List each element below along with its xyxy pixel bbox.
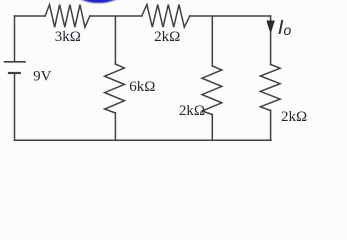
- resistor R 3k (horizontal zigzag): [45, 5, 90, 28]
- wire: 6k branch top lead: [114, 17, 116, 65]
- wire: left vertical to battery: [14, 16, 16, 61]
- svg-text:2kΩ: 2kΩ: [154, 29, 180, 45]
- svg-text:6kΩ: 6kΩ: [129, 79, 155, 95]
- resistor R 2k middle (vertical zigzag): [202, 66, 222, 115]
- battery V1 long plate: [5, 61, 26, 63]
- wire: top-left horizontal lead: [15, 15, 46, 17]
- wire: right branch bottom lead: [270, 111, 272, 141]
- wire: mid 2k branch top lead: [211, 16, 213, 66]
- wire: top middle segment: [90, 15, 142, 17]
- arrow for Io (filled triangle pointing down): [266, 21, 274, 35]
- wire: left vertical below battery: [14, 74, 16, 141]
- resistor R 2k top (horizontal zigzag): [142, 5, 190, 28]
- svg-text:9V: 9V: [33, 68, 52, 84]
- wire: bottom horizontal: [15, 139, 272, 141]
- wire: 6k branch bottom lead: [114, 113, 116, 140]
- svg-text:2kΩ: 2kΩ: [281, 109, 307, 125]
- svg-text:2kΩ: 2kΩ: [179, 103, 205, 119]
- battery V1 short plate: [9, 72, 20, 74]
- wire: top right segment to corner: [190, 15, 271, 17]
- resistor R 2k right (vertical zigzag): [260, 65, 280, 111]
- svg-text:3kΩ: 3kΩ: [55, 29, 81, 45]
- wire: right branch below arrow: [270, 33, 272, 65]
- resistor R 6k (vertical zigzag): [105, 64, 125, 113]
- wire: mid 2k branch bottom lead: [211, 115, 213, 141]
- wire: right branch from corner down to arrow: [270, 16, 272, 21]
